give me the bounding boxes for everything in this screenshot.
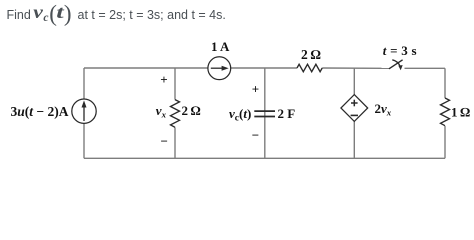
wire: right branch bottom [444, 126, 446, 158]
svg-text:2 Ω: 2 Ω [182, 103, 201, 118]
wire: right branch top [444, 68, 446, 98]
svg-text:1 A: 1 A [211, 39, 230, 54]
wire: bottom rail [84, 157, 445, 159]
wire: left branch bottom [83, 123, 85, 158]
switch (closes at t = 3s) [389, 60, 403, 70]
svg-text:Find: Find [7, 8, 31, 22]
svg-text:+: + [160, 72, 167, 87]
dependent source 2vx (diamond) [341, 95, 368, 122]
svg-text:): ) [64, 1, 72, 26]
svg-text:−: − [161, 134, 168, 149]
svg-text:vx: vx [156, 103, 167, 119]
resistor 2ohm (top rail) [297, 64, 322, 71]
svg-text:−: − [252, 128, 259, 143]
svg-text:c: c [43, 12, 48, 24]
resistor 1 ohm [441, 98, 450, 126]
svg-text:+: + [252, 82, 259, 97]
svg-text:vc(t): vc(t) [229, 106, 251, 124]
current source I1 3u(t-2)A [72, 99, 96, 123]
wire: dependent source branch bottom [353, 122, 355, 159]
svg-text:v: v [33, 2, 43, 22]
svg-text:t = 3 s: t = 3 s [383, 43, 417, 58]
svg-text:2 Ω: 2 Ω [301, 47, 321, 62]
current source I2 1A [208, 57, 231, 80]
wire: top rail segment between 2ohm resistor and switch [322, 67, 389, 69]
problem text "Find vc(t) at t = 2s; t = 3s; and t = 4s." [7, 1, 226, 26]
wire: branch 2 bottom [174, 127, 176, 158]
svg-text:2 F: 2 F [278, 106, 296, 121]
wire: left branch top [83, 68, 85, 99]
svg-text:3u(t − 2)A: 3u(t − 2)A [11, 104, 69, 119]
wire: dependent source branch top [353, 68, 355, 95]
resistor 2ohm (vx branch) [171, 100, 180, 128]
wire: top rail right segment (after switch) [405, 67, 446, 69]
svg-text:2vx: 2vx [375, 101, 392, 117]
svg-text:1 Ω: 1 Ω [451, 105, 470, 120]
wire: top rail middle segment (between 1A source and 2ohm resistor) [231, 67, 297, 69]
capacitor 2F [254, 111, 275, 116]
svg-text:at t = 2s; t = 3s; and t = 4s.: at t = 2s; t = 3s; and t = 4s. [78, 8, 226, 22]
wire: branch 2 top [174, 68, 176, 100]
wire: top rail left segment [84, 67, 208, 69]
wire: capacitor branch top [264, 68, 266, 158]
